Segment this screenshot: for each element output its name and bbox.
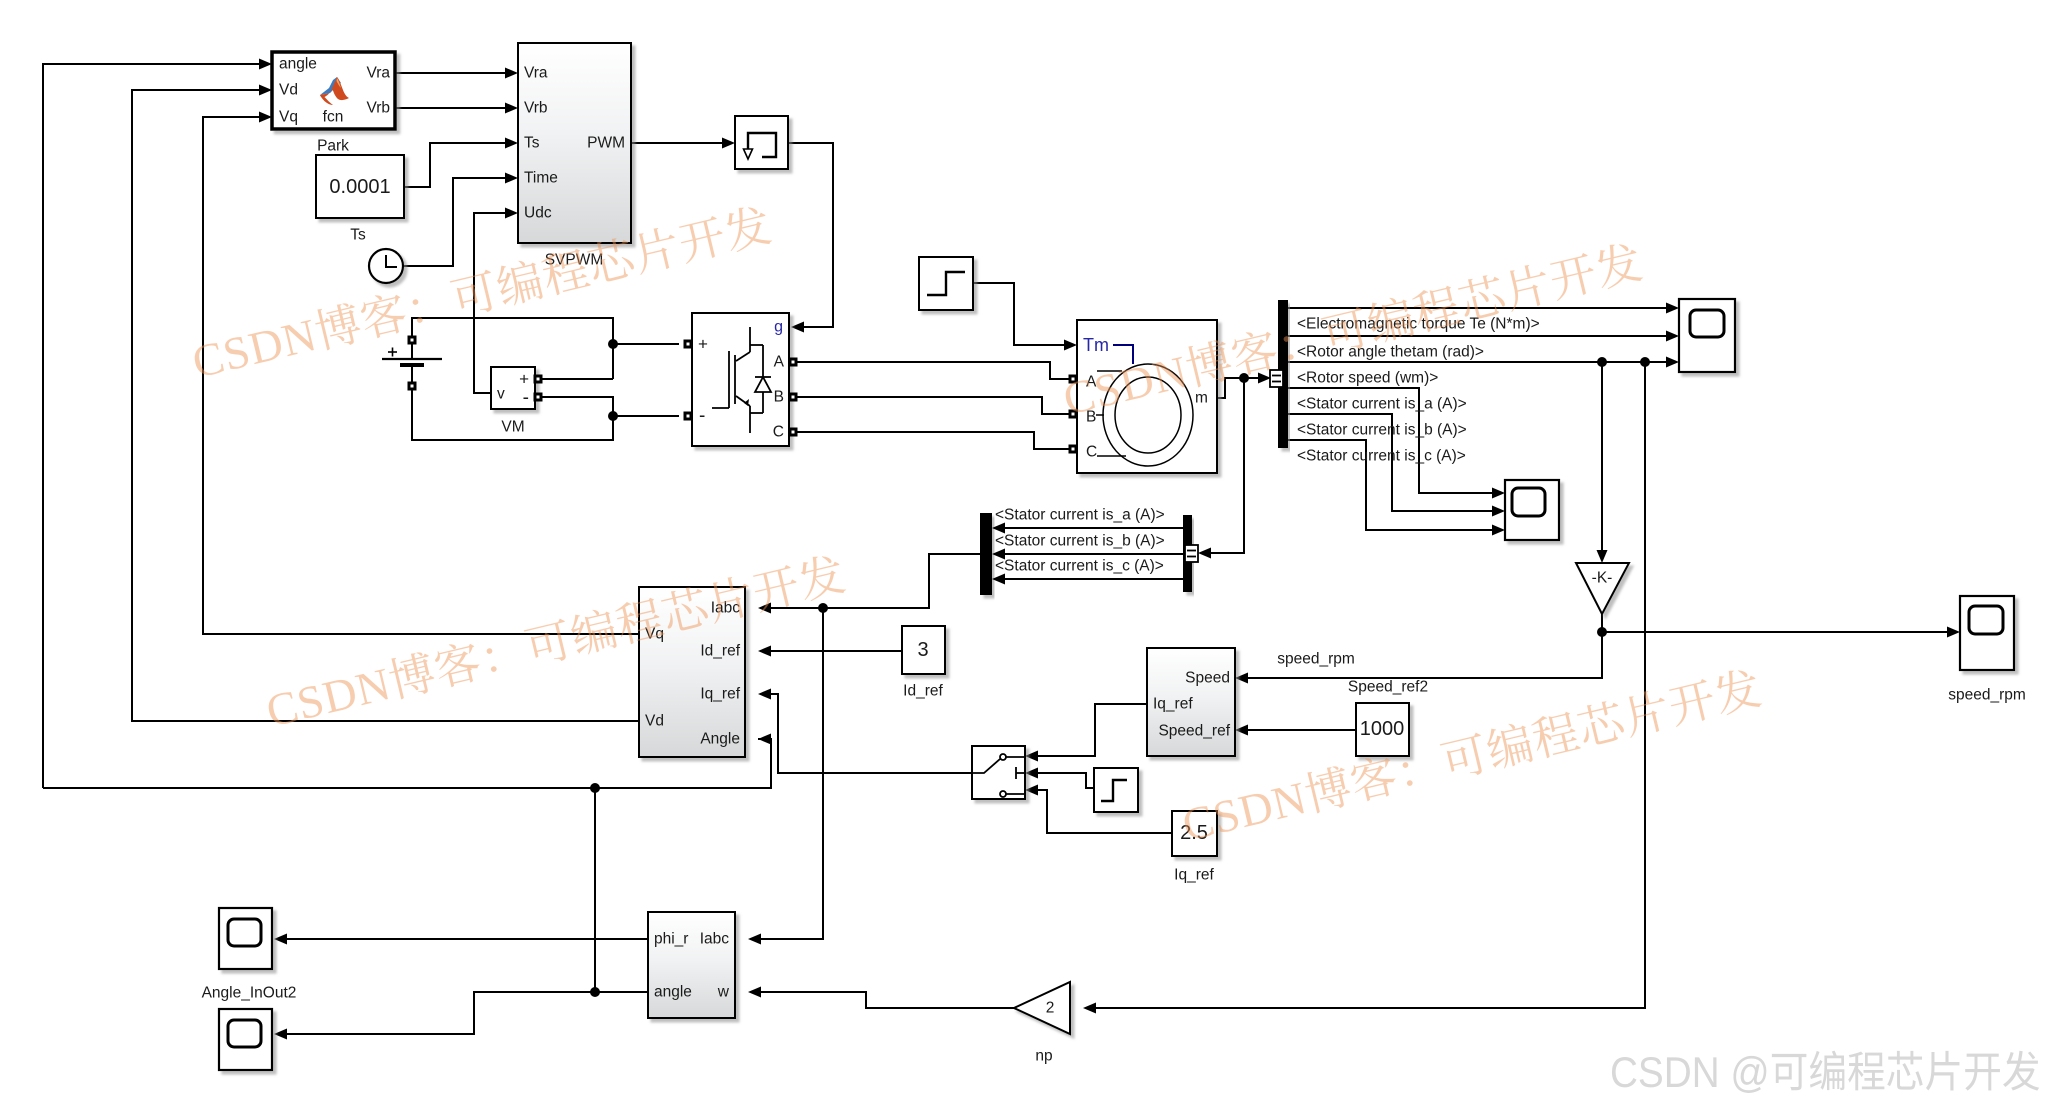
- VM - terminal: [534, 393, 543, 402]
- svg-text:Vrb: Vrb: [524, 100, 548, 117]
- wire to inverter -: [613, 415, 679, 417]
- wire wm to np gain: [1096, 362, 1645, 1008]
- arrow into current scope in2: [1492, 506, 1505, 517]
- svg-text:<Rotor speed (wm)>: <Rotor speed (wm)>: [1297, 370, 1438, 387]
- wire phase A: [797, 362, 1069, 379]
- wire is_c to scope: [1288, 440, 1492, 530]
- step source switch control: [1094, 768, 1138, 812]
- wire is_b to mux: [1005, 553, 1183, 555]
- arrow into regulator Iabc: [758, 603, 771, 614]
- scope speed_rpm: [1960, 596, 2014, 670]
- arrow into regulator Angle: [758, 734, 771, 745]
- svg-text:<Stator current is_b (A)>: <Stator current is_b (A)>: [1297, 422, 1467, 439]
- arrow into angle scope 2: [274, 1029, 287, 1040]
- wire Vra: [395, 72, 505, 74]
- svg-text:Vra: Vra: [366, 65, 390, 82]
- svg-text:angle: angle: [279, 56, 317, 73]
- scope stator currents: [1505, 480, 1559, 540]
- arrow into bus selector: [1258, 373, 1271, 384]
- svg-text:2: 2: [1046, 1000, 1055, 1017]
- voltage measurement VM: [491, 367, 535, 409]
- arrow into hold block: [722, 138, 735, 149]
- bus selector 2 input port icon: [1185, 545, 1198, 562]
- watermark 4: [1180, 665, 1763, 844]
- motor stator winding drawing: [1096, 364, 1193, 466]
- wire Iq_ref to regulator: [771, 694, 972, 773]
- wire w electrical: [761, 992, 1014, 1008]
- svg-text:2.5: 2.5: [1180, 822, 1208, 844]
- junction angle top: [590, 783, 600, 793]
- scope angle 2: [219, 1009, 272, 1070]
- wire rotor speed wm: [1288, 361, 1666, 363]
- svg-text:Iq_ref: Iq_ref: [1174, 867, 1214, 884]
- Tm connector: [1113, 345, 1133, 364]
- arrow into mux 3: [992, 574, 1005, 585]
- battery - terminal: [408, 382, 417, 391]
- arrow into current scope in1: [1492, 488, 1505, 499]
- wire Iabc to regulator: [771, 554, 980, 608]
- wire Tm: [973, 283, 1064, 345]
- wire battery minus rail: [412, 390, 613, 440]
- hold block loop icon: [748, 133, 776, 157]
- gain np: [1014, 982, 1070, 1034]
- svg-text:B: B: [774, 389, 784, 406]
- wire angle out: [287, 992, 648, 1034]
- svg-text:phi_r: phi_r: [654, 931, 688, 948]
- svg-text:<Stator current is_a (A)>: <Stator current is_a (A)>: [995, 507, 1165, 524]
- svg-text:np: np: [1035, 1048, 1052, 1065]
- wire g gate: [788, 143, 833, 327]
- wire battery plus rail: [412, 318, 613, 379]
- wire is_c to mux: [1005, 578, 1183, 580]
- inverter C terminal: [789, 428, 798, 437]
- subsystem SVPWM: [518, 43, 631, 243]
- arrow into Park Vd: [259, 85, 272, 96]
- wire Id_ref: [771, 650, 902, 652]
- motor C terminal: [1069, 445, 1078, 454]
- speed controller subsystem: [1147, 648, 1235, 756]
- svg-text:Angle_InOut2: Angle_InOut2: [202, 985, 297, 1002]
- wire Iq_ref from speed ctrl: [1038, 704, 1147, 756]
- svg-text:m: m: [1195, 390, 1208, 407]
- svg-text:Iq_ref: Iq_ref: [1153, 696, 1193, 713]
- junction angle bottom: [590, 987, 600, 997]
- arrow into scope in3: [1666, 357, 1679, 368]
- svg-text:Vq: Vq: [279, 109, 298, 126]
- arrow into SVPWM Ts: [505, 138, 518, 149]
- step icon: [927, 272, 965, 295]
- arrow into w input: [748, 987, 761, 998]
- arrow into current scope in3: [1492, 525, 1505, 536]
- arrow into speed_rpm scope: [1947, 627, 1960, 638]
- svg-text:Speed: Speed: [1185, 670, 1230, 687]
- svg-text:-K-: -K-: [1592, 570, 1613, 587]
- step icon: [1101, 780, 1127, 801]
- inverter B terminal: [789, 393, 798, 402]
- gain -K- rad/s to rpm: [1576, 563, 1629, 614]
- junction wm to np: [1640, 357, 1650, 367]
- arrow into angle scope 1: [274, 934, 287, 945]
- scope screen: [1969, 606, 2003, 634]
- bus selector 2: [1183, 515, 1192, 592]
- svg-text:Vd: Vd: [645, 713, 664, 730]
- bus selector input port icon: [1270, 370, 1283, 387]
- MATLAB logo: [320, 77, 349, 105]
- wire Udc from VM: [474, 213, 505, 393]
- svg-text:Ts: Ts: [350, 227, 366, 244]
- junction battery minus: [608, 411, 618, 421]
- wire torque Te: [1288, 307, 1666, 309]
- svg-text:speed_rpm: speed_rpm: [1277, 651, 1355, 668]
- svg-text:Park: Park: [317, 138, 349, 155]
- arrow into switch in2: [1025, 768, 1038, 779]
- svg-text:<Stator current is_c (A)>: <Stator current is_c (A)>: [1297, 448, 1466, 465]
- wire Speed_ref: [1248, 729, 1356, 731]
- wire angle feedback to Park: [43, 64, 259, 788]
- wire angle bus: [43, 739, 771, 788]
- svg-text:B: B: [1086, 409, 1096, 426]
- wire speed_rpm to scope: [1602, 631, 1947, 633]
- arrow into bus selector 2: [1198, 548, 1211, 559]
- svg-text:+: +: [519, 370, 529, 389]
- current regulator subsystem: [639, 587, 745, 757]
- scope angle 1: [219, 908, 272, 969]
- arrow into scope in2: [1666, 331, 1679, 342]
- svg-text:Vra: Vra: [524, 65, 548, 82]
- wire Iq_ref const: [1038, 790, 1172, 833]
- step source Tm: [919, 257, 973, 310]
- svg-text:+: +: [698, 335, 708, 354]
- svg-text:0.0001: 0.0001: [329, 176, 390, 198]
- svg-text:Speed_ref: Speed_ref: [1158, 723, 1230, 740]
- IGBT with diode icon: [712, 327, 771, 433]
- arrow into Speed input: [1235, 673, 1248, 684]
- wire motor m out: [1217, 378, 1258, 398]
- svg-text:Tm: Tm: [1083, 335, 1109, 355]
- wire is_a to scope: [1288, 388, 1492, 493]
- svg-text:Id_ref: Id_ref: [700, 643, 740, 660]
- arrow into SVPWM Udc: [505, 208, 518, 219]
- switch block: [972, 746, 1025, 799]
- wire m to bus selector 2: [1211, 378, 1244, 553]
- wire is_a to mux: [1005, 527, 1183, 529]
- hold block: [735, 116, 788, 169]
- svg-text:Vd: Vd: [279, 82, 298, 99]
- svg-text:v: v: [497, 386, 505, 403]
- svg-text:<Stator current is_b (A)>: <Stator current is_b (A)>: [995, 533, 1165, 550]
- svg-text:3: 3: [917, 639, 928, 661]
- junction m bus: [1239, 373, 1249, 383]
- scope screen: [1690, 310, 1724, 337]
- battery + terminal: [408, 336, 417, 345]
- VM + terminal: [534, 375, 543, 384]
- svg-text:<Rotor angle thetam (rad)>: <Rotor angle thetam (rad)>: [1297, 344, 1484, 361]
- wire phase B: [797, 397, 1069, 414]
- arrow into mux 1: [992, 523, 1005, 534]
- svg-text:Udc: Udc: [524, 205, 552, 222]
- svg-text:C: C: [773, 424, 784, 441]
- svg-text:w: w: [717, 984, 730, 1001]
- svg-text:PWM: PWM: [587, 135, 625, 152]
- arrow into SVPWM Vrb: [505, 103, 518, 114]
- PMSM motor block: [1077, 320, 1217, 473]
- watermark 1: [190, 202, 773, 381]
- wire speed_rpm to controller: [1248, 614, 1602, 678]
- wire VM + measure: [542, 378, 613, 380]
- angle calculation subsystem: [648, 912, 735, 1018]
- wire angle riser: [594, 788, 596, 992]
- junction battery plus: [608, 339, 618, 349]
- svg-text:speed_rpm: speed_rpm: [1948, 687, 2026, 704]
- svg-text:Id_ref: Id_ref: [903, 683, 943, 700]
- inverter + terminal: [684, 340, 693, 349]
- switch icon: [972, 754, 1025, 797]
- wire to inverter +: [613, 343, 679, 345]
- scope screen: [1512, 488, 1545, 516]
- svg-text:<Stator current is_a (A)>: <Stator current is_a (A)>: [1297, 396, 1467, 413]
- svg-text:A: A: [774, 354, 785, 371]
- wire rotor angle: [1288, 335, 1666, 337]
- svg-text:<Stator current is_c (A)>: <Stator current is_c (A)>: [995, 558, 1164, 575]
- DC voltage source battery: [382, 344, 442, 382]
- svg-text:-: -: [523, 388, 529, 409]
- wire is_b to scope: [1288, 414, 1492, 511]
- svg-text:Vrb: Vrb: [366, 100, 390, 117]
- svg-text:Iq_ref: Iq_ref: [700, 686, 740, 703]
- inverter A terminal: [789, 358, 798, 367]
- svg-text:VM: VM: [501, 419, 524, 436]
- arrow into inverter g: [791, 322, 804, 333]
- bus selector: [1278, 300, 1288, 448]
- constant 1000: [1356, 703, 1409, 756]
- inverter - terminal: [684, 412, 693, 421]
- wire phase C: [797, 432, 1069, 449]
- motor B terminal: [1069, 410, 1078, 419]
- arrow into Speed_ref: [1235, 725, 1248, 736]
- wire Vq from regulator to Park: [203, 117, 639, 634]
- wire phi_r to scope: [287, 938, 648, 940]
- wire Iabc to angle block: [761, 608, 823, 939]
- junction Iabc: [818, 603, 828, 613]
- arrow into motor Tm: [1064, 340, 1077, 351]
- scope machine signals: [1679, 299, 1735, 372]
- arrow into SVPWM Vra: [505, 68, 518, 79]
- svg-text:Iabc: Iabc: [700, 931, 730, 948]
- svg-text:fcn: fcn: [323, 109, 344, 126]
- MATLAB function block Park: [272, 52, 395, 129]
- svg-text:Angle: Angle: [700, 731, 740, 748]
- svg-text:Ts: Ts: [524, 135, 540, 152]
- arrow into angle block Iabc: [748, 934, 761, 945]
- arrow into np gain: [1083, 1003, 1096, 1014]
- arrow into SVPWM Time: [505, 173, 518, 184]
- junction wm to gain: [1597, 357, 1607, 367]
- arrow into regulator Iq_ref: [758, 689, 771, 700]
- wire Vrb: [395, 107, 505, 109]
- wire PWM: [631, 142, 722, 144]
- svg-text:C: C: [1086, 444, 1097, 461]
- svg-text:angle: angle: [654, 984, 692, 1001]
- svg-text:1000: 1000: [1360, 718, 1405, 740]
- wire Vd from regulator to Park: [132, 90, 639, 721]
- wire switch control: [1038, 773, 1094, 788]
- svg-text:Time: Time: [524, 170, 558, 187]
- arrow into switch in3: [1025, 785, 1038, 796]
- watermark 3: [264, 551, 847, 730]
- constant 2.5: [1172, 811, 1217, 856]
- motor A terminal: [1069, 375, 1078, 384]
- arrow into switch in1: [1025, 751, 1038, 762]
- wire wm to rad2rpm gain: [1601, 362, 1603, 551]
- svg-text:g: g: [774, 319, 783, 336]
- arrow into Park angle: [259, 59, 272, 70]
- junction speed_rpm: [1597, 627, 1607, 637]
- constant 3: [902, 626, 945, 674]
- constant 0.0001: [316, 155, 404, 218]
- scope screen: [228, 919, 261, 946]
- arrow into scope in1: [1666, 303, 1679, 314]
- wire Time: [403, 178, 505, 266]
- wire Ts: [404, 143, 505, 187]
- svg-text:Speed_ref2: Speed_ref2: [1348, 679, 1428, 696]
- mux: [980, 513, 992, 595]
- arrow into mux 2: [992, 549, 1005, 560]
- inverter universal bridge: [692, 313, 789, 446]
- watermark 2: [1061, 239, 1644, 418]
- arrow into regulator Id_ref: [758, 646, 771, 657]
- arrow into -K- gain: [1597, 550, 1608, 563]
- svg-text:-: -: [699, 406, 705, 427]
- watermark CSDN gray: [1612, 1051, 2039, 1093]
- arrow into Park Vq: [259, 112, 272, 123]
- clock block: [369, 249, 403, 283]
- scope screen: [228, 1020, 261, 1047]
